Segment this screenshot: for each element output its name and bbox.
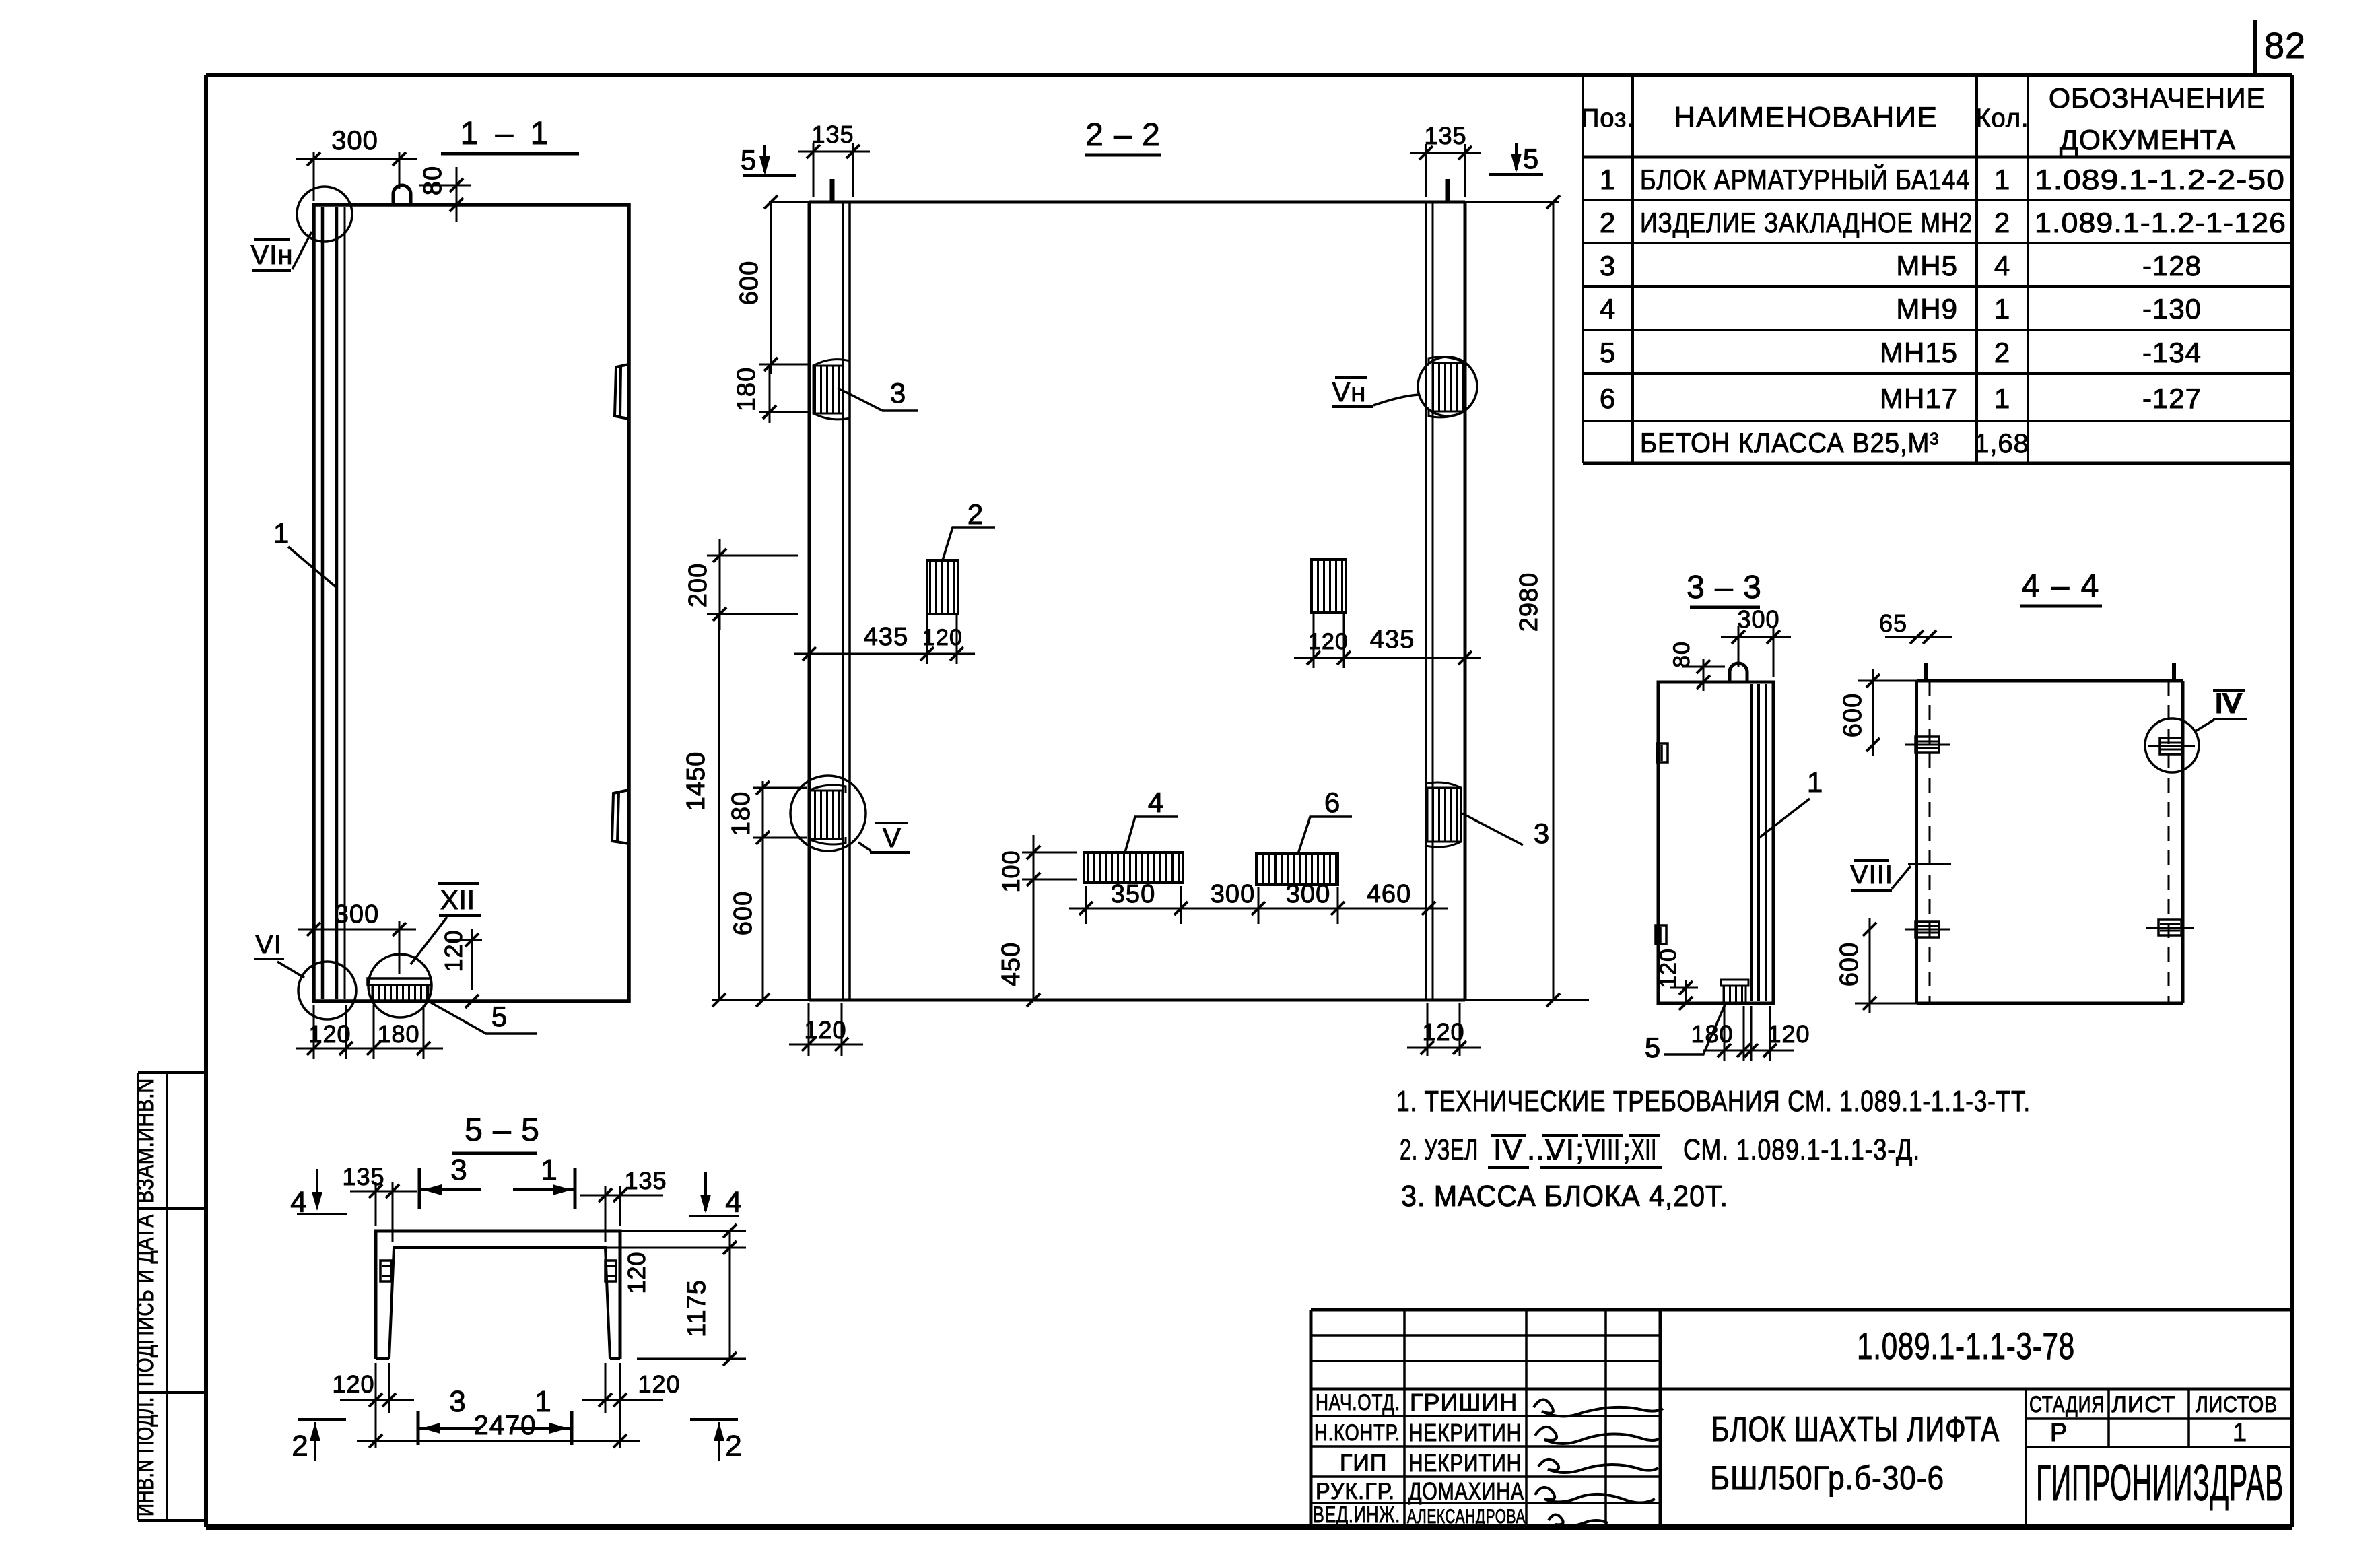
svg-text:3: 3 — [890, 377, 906, 409]
svg-text:ПОДПИСЬ И ДАТА: ПОДПИСЬ И ДАТА — [133, 1214, 158, 1386]
svg-text:1,68: 1,68 — [1974, 429, 2029, 459]
section marker 1 bottom of 5-5 — [510, 1385, 572, 1445]
svg-text:1.089.1-1.2-1-126: 1.089.1-1.2-1-126 — [2035, 207, 2286, 238]
note line 2 with node references — [1400, 1133, 1920, 1168]
svg-text:6: 6 — [1600, 382, 1616, 414]
svg-text:СТАДИЯ: СТАДИЯ — [2029, 1392, 2105, 1417]
svg-text:5: 5 — [491, 1001, 508, 1032]
svg-text:Кол.: Кол. — [1975, 104, 2029, 133]
stage/sheet headers — [2029, 1392, 2278, 1447]
dimension 135 right wall — [1410, 122, 1481, 197]
svg-text:IV: IV — [2215, 689, 2242, 718]
svg-text:РУК.ГР.: РУК.ГР. — [1316, 1479, 1395, 1504]
svg-text:1: 1 — [535, 1385, 551, 1418]
parts table rows text — [1600, 163, 2286, 459]
dimension 65 top of 4-4 — [1879, 609, 1952, 644]
svg-text:1.089.1-1.1-3-78: 1.089.1-1.1-3-78 — [1857, 1325, 2075, 1367]
svg-text:1: 1 — [1994, 164, 2010, 195]
svg-text:1: 1 — [1994, 382, 2010, 414]
section 5-5 leg bottom caps — [376, 1357, 620, 1360]
svg-text:3 – 3: 3 – 3 — [1687, 570, 1762, 605]
svg-text:Р: Р — [2050, 1419, 2068, 1447]
svg-text:Vн: Vн — [1332, 378, 1367, 407]
svg-text:135: 135 — [624, 1167, 667, 1195]
page number 82 — [2255, 20, 2306, 73]
svg-text:ГИП: ГИП — [1340, 1450, 1387, 1476]
section 2-2 top slab edge — [769, 201, 1559, 204]
svg-text:3: 3 — [450, 1153, 467, 1186]
section marker 4 top-right of 5-5 — [689, 1172, 743, 1219]
svg-text:VIII: VIII — [1585, 1133, 1621, 1166]
svg-text:VI: VI — [255, 930, 282, 960]
svg-text:-128: -128 — [2142, 250, 2202, 281]
dimension 120 right of 5-5 — [605, 1224, 746, 1294]
embedded part on right wall bottom with label 3 — [1426, 782, 1550, 849]
svg-text:120: 120 — [1308, 629, 1349, 655]
dimension 120 left bottom of 3-3 — [1656, 948, 1698, 1010]
svg-text:4: 4 — [725, 1186, 742, 1219]
svg-text:180: 180 — [377, 1020, 419, 1048]
embedded plate on 1-1 right edge upper — [615, 364, 629, 419]
dimension 200 far left — [684, 539, 798, 630]
svg-text:-127: -127 — [2142, 382, 2202, 414]
svg-text:300: 300 — [331, 126, 378, 156]
svg-text:5: 5 — [741, 144, 757, 176]
title block signature names — [1407, 1388, 1526, 1528]
svg-text:2: 2 — [725, 1430, 742, 1463]
svg-text:1.089.1-1.2-2-50: 1.089.1-1.2-2-50 — [2035, 164, 2285, 195]
svg-text:350: 350 — [1111, 880, 1155, 908]
section marker 4 top-left of 5-5 — [290, 1169, 347, 1219]
embedded part MN5 on left wall bottom with detail V — [790, 776, 910, 853]
svg-text:ГРИШИН: ГРИШИН — [1410, 1388, 1518, 1416]
dimension 300 top of 3-3 — [1721, 605, 1791, 677]
svg-text:135: 135 — [1424, 122, 1466, 149]
dimension 2470 bottom of 5-5 — [357, 1411, 640, 1448]
dimension 600 lower left — [729, 831, 807, 1007]
signatures squiggles — [1534, 1399, 1663, 1526]
dimension 300 above 1-1 bottom — [298, 900, 416, 980]
dimension 120 below right wall — [1407, 1003, 1481, 1056]
section 2-2 bottom edge — [712, 999, 1589, 1002]
section 4-4 hidden wall lines — [1930, 681, 2169, 1003]
dimension 435 and 120 upper left — [794, 614, 975, 664]
svg-text:1. ТЕХНИЧЕСКИЕ ТРЕБОВАНИЯ СМ.: 1. ТЕХНИЧЕСКИЕ ТРЕБОВАНИЯ СМ. 1.089.1-1.… — [1396, 1085, 2031, 1118]
dimension 135 top-right of 5-5 — [580, 1167, 667, 1242]
svg-text:3: 3 — [1600, 250, 1616, 281]
dimension 180 lower left — [727, 781, 807, 838]
svg-text:-134: -134 — [2142, 337, 2202, 368]
svg-text:;: ; — [1575, 1133, 1584, 1166]
svg-text:4 – 4: 4 – 4 — [2022, 568, 2101, 604]
note line 1 — [1396, 1085, 2031, 1118]
dimension 300 top of 1-1 — [296, 126, 417, 201]
detail circle XII with embedded part MN15 — [368, 883, 481, 1017]
svg-text:180: 180 — [727, 791, 755, 836]
svg-text:ДОМАХИНА: ДОМАХИНА — [1408, 1477, 1524, 1505]
embedded part right bottom of 4-4 — [2146, 920, 2194, 935]
svg-text:НЕКРИТИН: НЕКРИТИН — [1408, 1449, 1522, 1477]
svg-text:;: ; — [1623, 1133, 1631, 1166]
svg-text:ЛИСТ: ЛИСТ — [2112, 1392, 2176, 1417]
svg-text:4: 4 — [1600, 293, 1616, 325]
svg-text:БЛОК АРМАТУРНЫЙ БА144: БЛОК АРМАТУРНЫЙ БА144 — [1640, 163, 1970, 195]
clip inside right leg of 5-5 — [605, 1261, 616, 1281]
embedded part MN9 pos 4 — [1084, 786, 1183, 883]
title block grid — [1311, 1310, 2292, 1527]
svg-text:ДОКУМЕНТА: ДОКУМЕНТА — [2060, 124, 2236, 156]
svg-text:БШЛ50Гр.б-30-6: БШЛ50Гр.б-30-6 — [1710, 1459, 1944, 1497]
svg-text:600: 600 — [735, 261, 763, 305]
dimension 2980 right — [1515, 195, 1560, 1007]
svg-text:120: 120 — [638, 1370, 680, 1398]
svg-text:5: 5 — [1600, 337, 1616, 368]
leader 5 bottom of 3-3 — [1645, 1005, 1725, 1063]
svg-text:80: 80 — [419, 166, 447, 195]
section 4-4 title — [2020, 568, 2102, 606]
section 1-1 slab outline — [314, 205, 629, 1001]
section 5-5 inner outline — [389, 1248, 610, 1359]
section 3-3 lifting loop — [1730, 663, 1747, 682]
svg-text:МН17: МН17 — [1880, 382, 1958, 414]
svg-text:МН9: МН9 — [1896, 293, 1958, 325]
svg-text:1: 1 — [1600, 164, 1616, 195]
dimension 120 below left wall — [789, 1003, 863, 1056]
svg-text:2 – 2: 2 – 2 — [1085, 117, 1161, 153]
svg-text:120: 120 — [623, 1251, 650, 1294]
dimension 100 and 450 center — [997, 835, 1077, 1007]
parts table grid — [1583, 74, 2292, 463]
svg-text:300: 300 — [1737, 605, 1779, 633]
sidebar rotated labels — [133, 1078, 158, 1516]
dimension 180 upper left — [733, 364, 809, 423]
section 5-5 title — [452, 1112, 540, 1153]
leader 5 to MN15 part — [431, 1001, 537, 1034]
svg-text:600: 600 — [1835, 942, 1864, 986]
svg-text:БЕТОН КЛАССА В25,М³: БЕТОН КЛАССА В25,М³ — [1640, 427, 1939, 459]
svg-text:IV: IV — [1493, 1133, 1523, 1166]
svg-text:5: 5 — [1523, 143, 1539, 174]
dimension 80 top of 1-1 — [419, 166, 471, 222]
svg-text:НАЧ.ОТД.: НАЧ.ОТД. — [1316, 1390, 1400, 1415]
embedded part MN15 bottom of 3-3 — [1721, 980, 1748, 1003]
svg-text:VIн: VIн — [251, 240, 294, 270]
section 1-1 lifting loop — [393, 185, 411, 205]
svg-text:300: 300 — [1286, 880, 1330, 908]
svg-text:100: 100 — [997, 850, 1025, 892]
dimension 120 bottom-right of 5-5 — [582, 1363, 681, 1413]
cut ticks top of 4-4 — [1926, 663, 2174, 681]
section 5-5 outer outline — [376, 1231, 620, 1359]
svg-text:ИНВ.N ПОДЛ.: ИНВ.N ПОДЛ. — [133, 1397, 158, 1516]
svg-text:1175: 1175 — [683, 1279, 711, 1337]
section 3-3 slab outline — [1658, 682, 1773, 1003]
svg-text:1 – 1: 1 – 1 — [461, 116, 553, 152]
svg-text:2980: 2980 — [1515, 572, 1543, 632]
cut plane ticks 5-5 — [832, 179, 1448, 202]
note line 3 — [1401, 1180, 1728, 1213]
label 1 in 3-3 — [1759, 766, 1823, 838]
svg-text:ВЗАМ.ИНВ.N: ВЗАМ.ИНВ.N — [133, 1078, 158, 1203]
section marker 5 top-right — [1489, 143, 1543, 174]
label 1 armature block in 1-1 — [273, 517, 336, 587]
svg-text:ЛИСТОВ: ЛИСТОВ — [2196, 1392, 2278, 1417]
dimension 120 and 435 upper right — [1294, 613, 1481, 668]
section marker 3 top of 5-5 — [419, 1153, 481, 1209]
svg-text:VIII: VIII — [1850, 860, 1893, 890]
svg-text:135: 135 — [811, 121, 854, 148]
svg-text:1: 1 — [1807, 766, 1823, 798]
section marker 1 top of 5-5 — [513, 1153, 575, 1209]
dimension 1175 right of 5-5 — [637, 1231, 746, 1366]
svg-text:3: 3 — [1534, 817, 1550, 849]
parts table header text — [1581, 82, 2266, 156]
svg-text:5 – 5: 5 – 5 — [465, 1112, 540, 1148]
embedded clips on 3-3 left edge — [1656, 743, 1668, 944]
dimension 80 top of 3-3 — [1669, 641, 1725, 691]
svg-text:5: 5 — [1645, 1032, 1661, 1063]
svg-text:120: 120 — [1422, 1018, 1464, 1046]
svg-text:4: 4 — [1148, 786, 1164, 818]
svg-text:300: 300 — [1211, 880, 1255, 908]
svg-text:V: V — [883, 824, 902, 853]
svg-text:300: 300 — [335, 900, 379, 929]
svg-text:180: 180 — [1691, 1020, 1733, 1048]
detail circle VI at 1-1 bottom corner — [254, 930, 356, 1019]
section 4-4 slab outline — [1917, 681, 2183, 1003]
svg-text:600: 600 — [1839, 693, 1867, 737]
dimension 120 bottom-left of 5-5 — [332, 1363, 414, 1413]
svg-text:2: 2 — [967, 498, 984, 530]
svg-text:120: 120 — [308, 1020, 351, 1048]
svg-text:120: 120 — [1767, 1020, 1810, 1048]
svg-text:БЛОК ШАХТЫ ЛИФТА: БЛОК ШАХТЫ ЛИФТА — [1711, 1410, 2000, 1449]
bottom dimensions 180 and 120 of 3-3 — [1691, 1006, 1810, 1061]
svg-text:82: 82 — [2264, 26, 2306, 66]
svg-text:1: 1 — [541, 1153, 557, 1186]
section 3-3 title — [1687, 570, 1762, 607]
bottom dimensions 120 and 180 of 1-1 — [296, 1005, 443, 1059]
embedded part MN2 right — [1311, 560, 1346, 613]
section 2-2 title — [1085, 117, 1161, 155]
svg-text:2: 2 — [1994, 337, 2010, 368]
section marker 2 bottom-right of 5-5 — [690, 1419, 743, 1463]
section marker 3 bottom of 5-5 — [418, 1385, 479, 1445]
svg-text:НАИМЕНОВАНИЕ: НАИМЕНОВАНИЕ — [1674, 101, 1938, 133]
svg-text:460: 460 — [1367, 880, 1411, 908]
svg-text:200: 200 — [684, 563, 712, 607]
svg-text:120: 120 — [922, 625, 963, 650]
embedded plate on 1-1 right edge lower — [612, 790, 629, 844]
embedded part MN17 pos 6 — [1256, 786, 1352, 885]
svg-text:2: 2 — [292, 1430, 308, 1463]
svg-text:120: 120 — [440, 929, 467, 972]
svg-text:435: 435 — [1370, 626, 1415, 654]
svg-text:120: 120 — [1656, 948, 1681, 988]
section 2-2 right wall — [1426, 202, 1465, 1000]
svg-text:СМ. 1.089.1-1.1-3-Д.: СМ. 1.089.1-1.1-3-Д. — [1683, 1133, 1920, 1166]
svg-text:435: 435 — [864, 623, 908, 651]
dimensions 350 300 300 460 — [1069, 880, 1448, 924]
embedded part MN5 on right wall top with detail Vn — [1332, 357, 1477, 417]
svg-text:135: 135 — [342, 1163, 384, 1191]
svg-text:ОБОЗНАЧЕНИЕ: ОБОЗНАЧЕНИЕ — [2049, 82, 2266, 114]
svg-text:МН15: МН15 — [1880, 337, 1958, 368]
dimension 135 top-left of 5-5 — [342, 1163, 417, 1242]
svg-text:2470: 2470 — [474, 1411, 537, 1440]
svg-text:1: 1 — [2233, 1419, 2247, 1447]
svg-text:ИЗДЕЛИЕ ЗАКЛАДНОЕ МН2: ИЗДЕЛИЕ ЗАКЛАДНОЕ МН2 — [1640, 207, 1973, 238]
dimension 120 right of XII — [440, 929, 482, 1008]
svg-text:2: 2 — [1600, 207, 1616, 238]
section marker 2 bottom-left of 5-5 — [292, 1419, 346, 1463]
svg-text:МН5: МН5 — [1896, 250, 1958, 281]
svg-text:600: 600 — [729, 891, 757, 935]
svg-text:3. МАССА БЛОКА 4,20Т.: 3. МАССА БЛОКА 4,20Т. — [1401, 1180, 1728, 1213]
svg-text:4: 4 — [1994, 250, 2010, 281]
svg-text:ВЕД.ИНЖ.: ВЕД.ИНЖ. — [1313, 1502, 1400, 1528]
leader 3 left wall — [838, 377, 918, 411]
svg-text:Н.КОНТР.: Н.КОНТР. — [1314, 1420, 1400, 1446]
svg-text:2: 2 — [1994, 207, 2010, 238]
title block signature labels — [1313, 1390, 1400, 1528]
svg-text:НЕКРИТИН: НЕКРИТИН — [1408, 1419, 1522, 1446]
section 1-1 wall layer lines — [322, 207, 345, 999]
svg-text:XII: XII — [440, 885, 475, 915]
embedded part left bottom of 4-4 — [1905, 922, 1950, 937]
embedded part MN2 left with label 2 — [927, 498, 995, 614]
svg-text:1450: 1450 — [682, 751, 710, 811]
svg-text:АЛЕКСАНДРОВА: АЛЕКСАНДРОВА — [1407, 1506, 1526, 1528]
svg-text:65: 65 — [1879, 609, 1907, 637]
detail circle VIn at 1-1 top corner — [251, 187, 352, 271]
dimension 1450 far left — [682, 614, 726, 1007]
svg-text:VI: VI — [1545, 1133, 1575, 1166]
dimension 600 top left of 4-4 — [1839, 669, 1917, 756]
section 3-3 wall layer lines — [1751, 684, 1766, 1001]
svg-text:1: 1 — [1994, 293, 2010, 325]
label VIII with leader — [1850, 860, 1951, 890]
dimension 600 bottom left of 4-4 — [1835, 918, 1917, 1013]
dimension 600 upper left — [735, 195, 778, 374]
embedded part left top of 4-4 — [1905, 737, 1950, 753]
left sidebar stamp — [138, 1073, 206, 1520]
svg-text:180: 180 — [733, 367, 761, 411]
svg-text:6: 6 — [1324, 786, 1340, 818]
svg-text:450: 450 — [997, 942, 1025, 986]
svg-text:120: 120 — [804, 1016, 846, 1044]
svg-text:-130: -130 — [2142, 293, 2202, 325]
section marker 5 top-left — [741, 144, 796, 176]
svg-text:2. УЗЕЛ: 2. УЗЕЛ — [1400, 1133, 1478, 1166]
dimension 135 left wall — [798, 121, 870, 197]
embedded part right top of 4-4 with detail IV — [2145, 689, 2247, 772]
svg-text:3: 3 — [449, 1385, 466, 1418]
svg-text:XII: XII — [1631, 1133, 1657, 1166]
section 2-2 left wall — [809, 202, 850, 1000]
svg-text:1: 1 — [273, 517, 290, 549]
embedded part MN5 on left wall top — [813, 360, 850, 420]
svg-text:ГИПРОНИИЗДРАВ: ГИПРОНИИЗДРАВ — [2036, 1454, 2284, 1512]
section 1-1 title — [441, 116, 579, 154]
clip inside left leg of 5-5 — [380, 1261, 391, 1281]
svg-text:120: 120 — [332, 1370, 374, 1398]
svg-text:80: 80 — [1669, 641, 1695, 668]
svg-text:Поз.: Поз. — [1581, 104, 1635, 133]
